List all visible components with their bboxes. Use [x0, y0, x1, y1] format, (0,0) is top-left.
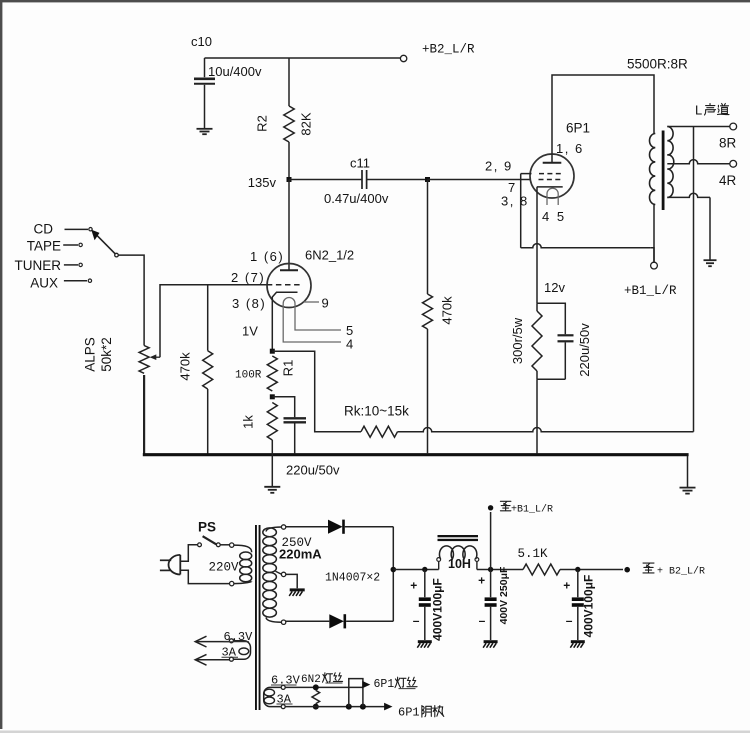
- svg-text:6P1: 6P1: [566, 121, 590, 136]
- 6N2 filament zigzag: [312, 690, 320, 703]
- 6N2 grid dashes: [267, 284, 303, 286]
- svg-text:135v: 135v: [248, 175, 277, 190]
- wire filament top: [285, 686, 363, 688]
- tube 6P1 envelope: [530, 154, 574, 198]
- wire 6P1 screen to B1: [520, 174, 522, 248]
- label deng-si glyphs 6P1: [395, 677, 406, 687]
- svg-text:8R: 8R: [719, 136, 737, 151]
- label zhi glyph B2: [643, 563, 654, 573]
- svg-text:220u/50v: 220u/50v: [577, 323, 592, 377]
- wire D2 to junction: [392, 570, 394, 622]
- label deng-si glyphs 6N2: [323, 673, 333, 682]
- PSU HV terminals: [281, 525, 285, 529]
- wire 6N2 pin5: [295, 308, 341, 330]
- resistor 470k input: [207, 285, 209, 351]
- node 6N2 cathode: [270, 349, 275, 354]
- svg-text:PS: PS: [198, 520, 216, 535]
- svg-text:CD: CD: [34, 222, 54, 237]
- border top: [0, 0, 750, 2]
- label sheng-dao glyphs (L channel): [705, 104, 716, 116]
- capacitor 400V100uF first: [424, 570, 426, 598]
- wire bus to right ground: [687, 456, 689, 487]
- svg-text:50k*2: 50k*2: [99, 337, 114, 372]
- svg-text:470k: 470k: [178, 352, 193, 381]
- wire to 6P1 grid: [428, 179, 531, 181]
- capacitor c10: [204, 58, 206, 77]
- resistor 300r/5w with bypass cap: [537, 303, 565, 334]
- resistor Rk: [361, 426, 398, 437]
- 6N2 plate bar: [280, 269, 298, 271]
- wire 135v to c11: [289, 179, 362, 181]
- 6P1 screen stub: [521, 173, 532, 175]
- resistor 5.1K: [523, 564, 560, 575]
- PSU HV center tap tick: [276, 571, 282, 574]
- power switch PS: [198, 543, 202, 547]
- svg-text:6P1: 6P1: [374, 678, 395, 691]
- ground HV center tap: [290, 588, 305, 591]
- contact TUNER: [64, 264, 78, 266]
- terminal +B1_L/R: [651, 262, 658, 269]
- wire c11 to grid node: [367, 179, 428, 181]
- svg-text:TUNER: TUNER: [15, 258, 62, 273]
- potentiometer ALPS 50k*2: [139, 346, 149, 374]
- wire feedback riser: [693, 127, 695, 432]
- wire 6P1 cathode down: [536, 187, 538, 303]
- node cap1: [422, 567, 427, 572]
- wire center tap to ground: [286, 574, 297, 588]
- svg-text:6N2: 6N2: [301, 674, 321, 686]
- AC plug: [169, 555, 181, 575]
- svg-text:+: +: [563, 579, 570, 593]
- wire 300r to bus: [536, 379, 538, 453]
- wire 6N2 pin4: [283, 308, 341, 342]
- svg-text:5500R:8R: 5500R:8R: [627, 57, 688, 72]
- OPT primary winding: [649, 134, 655, 205]
- svg-text:6N2_1/2: 6N2_1/2: [305, 248, 354, 263]
- node filament bottom left: [313, 704, 319, 710]
- wire cathode to Rk: [272, 351, 361, 432]
- svg-text:0.47u/400v: 0.47u/400v: [324, 191, 389, 206]
- node filament bottom mid: [346, 704, 352, 710]
- 6P1 filament pickoff: [349, 679, 363, 707]
- svg-text:470k: 470k: [440, 296, 455, 325]
- 6N2 cathode: [272, 292, 297, 351]
- winding 6.3V lower: [281, 685, 285, 689]
- 6P1 cathode: [537, 186, 563, 188]
- ground c10: [197, 128, 213, 130]
- 6N2 heater: [283, 298, 295, 308]
- 6P1 plate bar: [543, 162, 562, 164]
- wire junction to cap1: [393, 569, 438, 571]
- OPT core: [662, 131, 665, 211]
- wire riser to B1 terminal: [490, 512, 492, 570]
- svg-text:+: +: [410, 579, 417, 593]
- svg-text:+ B2_L/R: + B2_L/R: [657, 566, 705, 578]
- node B1 takeoff: [488, 567, 493, 572]
- wire D1 to junction: [392, 527, 394, 570]
- wire +B2 top rail: [205, 57, 402, 59]
- border left: [0, 0, 2, 729]
- terminal 8R: [730, 123, 737, 130]
- svg-text:c10: c10: [191, 34, 212, 49]
- choke 10H: [438, 561, 440, 569]
- svg-text:Rk:10~15k: Rk:10~15k: [344, 404, 409, 419]
- wire Rk to feedback with hops: [398, 428, 694, 432]
- capacitor c11: [361, 170, 363, 189]
- OPT secondary winding: [667, 127, 673, 198]
- svg-text:1, 6: 1, 6: [556, 141, 584, 156]
- svg-text:10H: 10H: [448, 557, 471, 571]
- node cap3: [575, 567, 580, 572]
- wire R2 top: [288, 58, 290, 106]
- capacitor 400V100uF second: [577, 570, 579, 598]
- svg-text:+: +: [478, 574, 485, 588]
- resistor 470k grid: [427, 180, 429, 295]
- svg-text:100R: 100R: [235, 370, 262, 382]
- svg-text:L: L: [695, 103, 702, 118]
- svg-text:R1: R1: [281, 360, 296, 377]
- svg-text:12v: 12v: [544, 280, 565, 295]
- svg-text:R2: R2: [255, 115, 270, 132]
- diode D1: [286, 526, 328, 528]
- svg-text:ALPS: ALPS: [83, 337, 98, 372]
- svg-text:220V: 220V: [209, 561, 240, 575]
- tube 6N2 envelope: [267, 264, 311, 308]
- 6P1 grid dashes: [539, 179, 563, 181]
- svg-text:400V100μF: 400V100μF: [582, 575, 596, 638]
- svg-text:82K: 82K: [299, 112, 314, 135]
- svg-text:+B2_L/R: +B2_L/R: [422, 43, 475, 57]
- node R1/1k junction: [270, 394, 275, 399]
- svg-text:9: 9: [322, 296, 329, 311]
- winding 6.3V upper: [229, 639, 233, 643]
- resistor R1 100R: [267, 356, 277, 391]
- svg-text:220mA: 220mA: [279, 547, 322, 562]
- terminal +B2_L/R: [400, 55, 406, 61]
- capacitor 220u/50v bypass: [272, 397, 294, 418]
- wire 6N2 plate: [288, 180, 290, 271]
- svg-text:1N4007×2: 1N4007×2: [325, 572, 380, 585]
- resistor R2: [284, 106, 294, 142]
- wire 5.1K to B2: [560, 569, 623, 571]
- PSU HV secondary winding: [266, 527, 281, 532]
- svg-text:4: 4: [346, 337, 353, 352]
- svg-text:c11: c11: [350, 156, 370, 171]
- svg-text:5.1K: 5.1K: [518, 547, 549, 561]
- ground OPT secondary: [704, 259, 717, 261]
- svg-text:–: –: [413, 614, 420, 628]
- svg-text:3, 8: 3, 8: [501, 194, 529, 209]
- label zhi glyph B1: [500, 501, 511, 510]
- svg-text:400V100μF: 400V100μF: [431, 578, 445, 641]
- contact TAPE: [63, 244, 78, 246]
- wire 6P1 plate to OPT: [552, 75, 654, 163]
- arrow 6.3V upper top: [197, 641, 230, 643]
- PSU primary winding 220V: [234, 545, 252, 552]
- node grid junction: [425, 177, 430, 182]
- svg-text:3 (8): 3 (8): [232, 296, 266, 311]
- ground 6N2 cathode: [264, 486, 280, 488]
- arrow 6.3V upper bottom: [197, 659, 230, 661]
- svg-text:2 (7): 2 (7): [231, 270, 265, 285]
- contact AUX: [64, 280, 87, 282]
- terminal 4R: [730, 160, 737, 167]
- PSU core: [255, 525, 257, 710]
- svg-text:1k: 1k: [241, 415, 256, 429]
- ground bus thick: [143, 375, 145, 454]
- terminal to +B2_L/R: [624, 567, 630, 573]
- wire OPT primary bottom to B1: [653, 205, 655, 263]
- label yin-ji glyphs: [422, 706, 431, 718]
- wire plug to primary bottom: [180, 570, 229, 583]
- node 135v: [287, 177, 292, 182]
- wire selector to volume pot: [118, 255, 144, 345]
- wire filament bottom with arrow: [285, 706, 386, 708]
- selector switch arm: [96, 234, 116, 254]
- capacitor 400V250uF: [490, 570, 492, 598]
- ground right: [680, 487, 696, 489]
- wire 8R tap: [667, 126, 730, 128]
- node filament top: [313, 684, 319, 690]
- svg-text:+B1_L/R: +B1_L/R: [624, 284, 677, 298]
- svg-text:300r/5w: 300r/5w: [510, 317, 525, 364]
- svg-text:+B1_L/R: +B1_L/R: [511, 504, 553, 516]
- pot wiper arrow: [154, 356, 160, 358]
- svg-text:1V: 1V: [242, 324, 258, 339]
- wire 1k to ground: [271, 440, 273, 486]
- contact CD: [65, 228, 89, 230]
- wire 4R tap with hop: [667, 160, 730, 164]
- node rectifier junction: [391, 567, 397, 573]
- wire plug to switch: [180, 545, 197, 561]
- wire wiper to 6N2 grid: [160, 285, 267, 358]
- terminal to +B1_L/R: [488, 505, 493, 510]
- wire R2 bottom: [288, 142, 290, 180]
- svg-text:AUX: AUX: [30, 276, 58, 291]
- svg-text:10u/400v: 10u/400v: [208, 64, 262, 79]
- border bottom faint: [0, 731, 750, 734]
- svg-text:4 5: 4 5: [542, 209, 566, 224]
- 6P1 screen dashes: [539, 173, 562, 175]
- node filament bottom right: [360, 704, 366, 710]
- svg-text:2, 9: 2, 9: [485, 159, 513, 174]
- 6P1 heater: [547, 188, 558, 205]
- svg-text:4R: 4R: [719, 173, 737, 188]
- svg-text:1 (6): 1 (6): [250, 249, 284, 264]
- wire 6N2 pin9: [304, 301, 320, 303]
- svg-text:–: –: [566, 614, 573, 628]
- diode D2: [286, 620, 330, 622]
- PSU primary terminals: [230, 543, 234, 547]
- svg-text:220u/50v: 220u/50v: [286, 463, 340, 478]
- svg-text:TAPE: TAPE: [27, 239, 61, 254]
- svg-text:6P1: 6P1: [398, 706, 420, 720]
- svg-text:400V 250μF: 400V 250μF: [498, 566, 510, 624]
- svg-text:–: –: [479, 614, 486, 628]
- resistor 1k: [267, 403, 277, 441]
- wire choke to B1 node: [477, 569, 523, 571]
- wire secondary common with hop: [667, 193, 710, 197]
